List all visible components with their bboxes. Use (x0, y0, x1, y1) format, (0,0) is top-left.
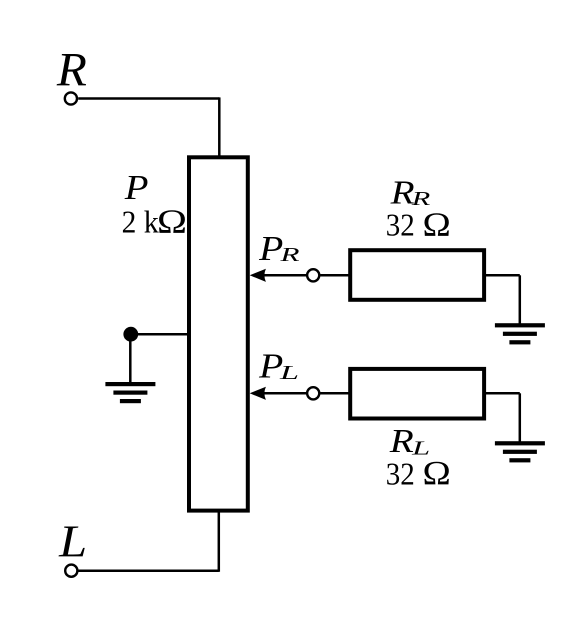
svg-text:32: 32 (386, 207, 415, 243)
svg-text:Ω: Ω (423, 206, 451, 243)
svg-text:Ω: Ω (423, 455, 451, 492)
svg-text:R: R (279, 244, 300, 266)
svg-text:R: R (56, 44, 87, 97)
svg-text:32: 32 (386, 456, 415, 492)
svg-text:L: L (278, 362, 299, 384)
svg-text:Ω: Ω (157, 204, 187, 241)
svg-text:P: P (124, 169, 149, 207)
svg-text:L: L (58, 517, 87, 567)
svg-text:2: 2 (122, 204, 137, 240)
